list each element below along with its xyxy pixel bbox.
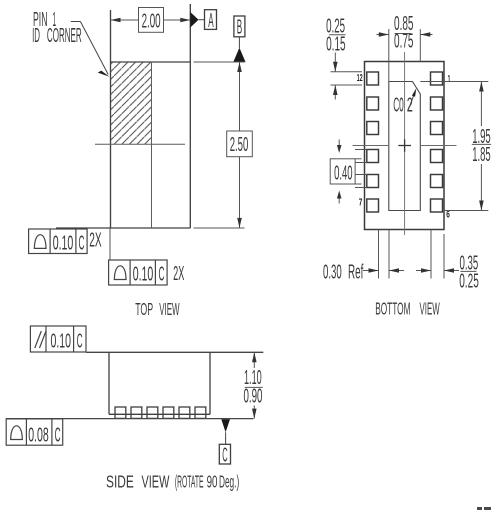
svg-text:0.10: 0.10: [133, 264, 154, 286]
svg-text:0.75: 0.75: [394, 31, 414, 53]
vertical centerline (top view): [151, 62, 153, 228]
svg-text:Deg.): Deg.): [219, 472, 239, 492]
svg-text:2X: 2X: [89, 230, 101, 252]
svg-text:SIDE: SIDE: [106, 472, 134, 492]
svg-text:1: 1: [448, 74, 451, 85]
svg-text:TOP: TOP: [135, 299, 153, 319]
svg-text:0.30: 0.30: [323, 262, 342, 284]
package body outline (bottom view): [365, 62, 445, 230]
svg-text:VIEW: VIEW: [420, 299, 440, 319]
svg-text:7: 7: [359, 198, 363, 209]
svg-text:2.00: 2.00: [142, 11, 161, 33]
svg-text:2X: 2X: [173, 263, 184, 285]
top surface extension line: [86, 351, 263, 353]
corner smudge: [477, 507, 491, 510]
svg-text:90: 90: [207, 472, 218, 492]
dimension 0.40 (pad pitch, basic): [330, 140, 367, 204]
datum A: [190, 12, 198, 28]
svg-text:0.25: 0.25: [459, 271, 479, 293]
side view pads: [115, 407, 206, 418]
extension line bottom right (for 2.50): [194, 227, 245, 229]
leader to chamfer: [408, 92, 415, 111]
svg-text:A: A: [208, 10, 214, 32]
svg-text:6: 6: [446, 210, 450, 221]
svg-text:(ROTATE: (ROTATE: [175, 472, 204, 492]
svg-text:CORNER: CORNER: [47, 25, 82, 47]
leader to hatched corner: [71, 22, 108, 75]
svg-text:VIEW: VIEW: [159, 299, 180, 319]
svg-text:C: C: [55, 425, 61, 447]
dimension 1.95 / 1.85 (exposed pad length): [420, 82, 491, 211]
svg-text:0.08: 0.08: [28, 425, 49, 447]
svg-text:C: C: [79, 233, 85, 255]
exposed pad with chamfered corner: [389, 82, 421, 211]
svg-text:C: C: [222, 445, 227, 467]
dimension 2.50: [227, 62, 253, 228]
svg-text:C: C: [159, 264, 165, 286]
svg-text:0.10: 0.10: [51, 330, 72, 352]
package body outline (top view): [56, 4, 190, 228]
feature control frame (profile 0.08 C): [6, 419, 63, 445]
svg-text:BOTTOM: BOTTOM: [375, 299, 410, 319]
vertical centerline (bottom view): [404, 52, 406, 235]
datum C: [221, 419, 230, 432]
feature control frame (parallelism 0.10 C): [30, 326, 86, 352]
feature control frame (profile 0.10 C 2X) lower: [109, 260, 168, 285]
dimension 0.85 / 0.75: [377, 29, 433, 82]
svg-text:C0: C0: [393, 94, 404, 116]
left pads (pins 12-7): [367, 72, 379, 212]
dimension 0.30 Ref: [363, 230, 404, 279]
svg-text:VIEW: VIEW: [142, 472, 170, 492]
horizontal centerline segments (bottom view): [353, 145, 390, 147]
extension line top right (for 2.50 / datum B): [194, 61, 245, 63]
svg-text:0.15: 0.15: [326, 34, 346, 56]
svg-text:1.85: 1.85: [472, 144, 491, 166]
svg-text:0.40: 0.40: [334, 163, 353, 185]
svg-text:0.10: 0.10: [53, 233, 74, 255]
pin 1 ID hatched corner: [111, 63, 152, 145]
center cross mark: [398, 139, 411, 152]
dimension 0.35 / 0.25 (pad length): [416, 230, 459, 279]
svg-text:12: 12: [357, 73, 363, 84]
svg-text:0.90: 0.90: [244, 386, 263, 408]
dimension 1.10 / 0.90: [245, 352, 263, 418]
package body (side view): [109, 352, 210, 414]
svg-text:Ref: Ref: [348, 262, 364, 284]
svg-text:B: B: [237, 17, 242, 39]
svg-text:2.50: 2.50: [230, 134, 249, 156]
feature control frame (profile 0.10 C 2X) left: [29, 229, 88, 254]
svg-text:C: C: [77, 330, 83, 352]
right pads (pins 1-6): [431, 72, 443, 212]
dimension 2.00: [111, 8, 191, 33]
svg-text:ID: ID: [32, 25, 40, 47]
seating plane line: [6, 418, 253, 420]
horizontal centerline (top view): [95, 143, 185, 145]
datum B: [234, 16, 245, 37]
stub to lower feature control frame: [109, 228, 111, 260]
